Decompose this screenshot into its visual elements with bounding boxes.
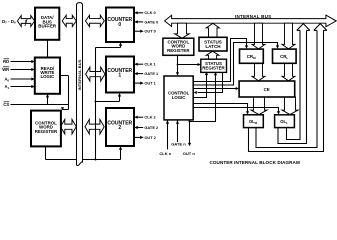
svg-text:D7 - D0: D7 - D0 — [2, 19, 16, 25]
svg-text:0: 0 — [118, 22, 121, 28]
svg-text:CS: CS — [3, 102, 9, 107]
svg-text:CLK 2: CLK 2 — [144, 115, 156, 120]
svg-text:2: 2 — [118, 125, 121, 131]
svg-text:A0: A0 — [4, 77, 9, 83]
svg-text:LATCH: LATCH — [205, 44, 221, 49]
svg-text:GATE 0: GATE 0 — [144, 19, 158, 24]
svg-text:A1: A1 — [4, 84, 9, 90]
svg-text:OUT 1: OUT 1 — [144, 81, 156, 86]
svg-text:LOGIC: LOGIC — [172, 95, 186, 100]
svg-text:INTERNAL BUS: INTERNAL BUS — [77, 59, 82, 90]
svg-text:LOGIC: LOGIC — [40, 74, 55, 79]
svg-text:OUT 2: OUT 2 — [144, 135, 156, 140]
svg-text:REGISTER: REGISTER — [167, 48, 190, 53]
svg-text:REGISTER: REGISTER — [35, 129, 58, 134]
svg-text:OUT 0: OUT 0 — [144, 29, 155, 34]
svg-text:GATE 1: GATE 1 — [144, 71, 159, 76]
svg-text:CLK n: CLK n — [159, 151, 171, 156]
svg-text:CE: CE — [264, 87, 270, 92]
svg-text:GATE n: GATE n — [171, 142, 186, 147]
svg-text:COUNTER INTERNAL BLOCK DIAGRAM: COUNTER INTERNAL BLOCK DIAGRAM — [210, 160, 300, 165]
svg-text:BUFFER: BUFFER — [38, 24, 57, 29]
svg-text:1: 1 — [118, 73, 121, 79]
svg-text:REGISTER: REGISTER — [202, 66, 225, 71]
svg-text:RD: RD — [3, 59, 9, 64]
svg-text:WR: WR — [2, 67, 9, 72]
svg-text:INTERNAL BUS: INTERNAL BUS — [235, 14, 271, 19]
svg-text:CLK 0: CLK 0 — [144, 10, 155, 15]
svg-text:CLK 1: CLK 1 — [144, 62, 156, 67]
svg-text:GATE 2: GATE 2 — [144, 125, 159, 130]
svg-text:OUT n: OUT n — [183, 151, 196, 156]
